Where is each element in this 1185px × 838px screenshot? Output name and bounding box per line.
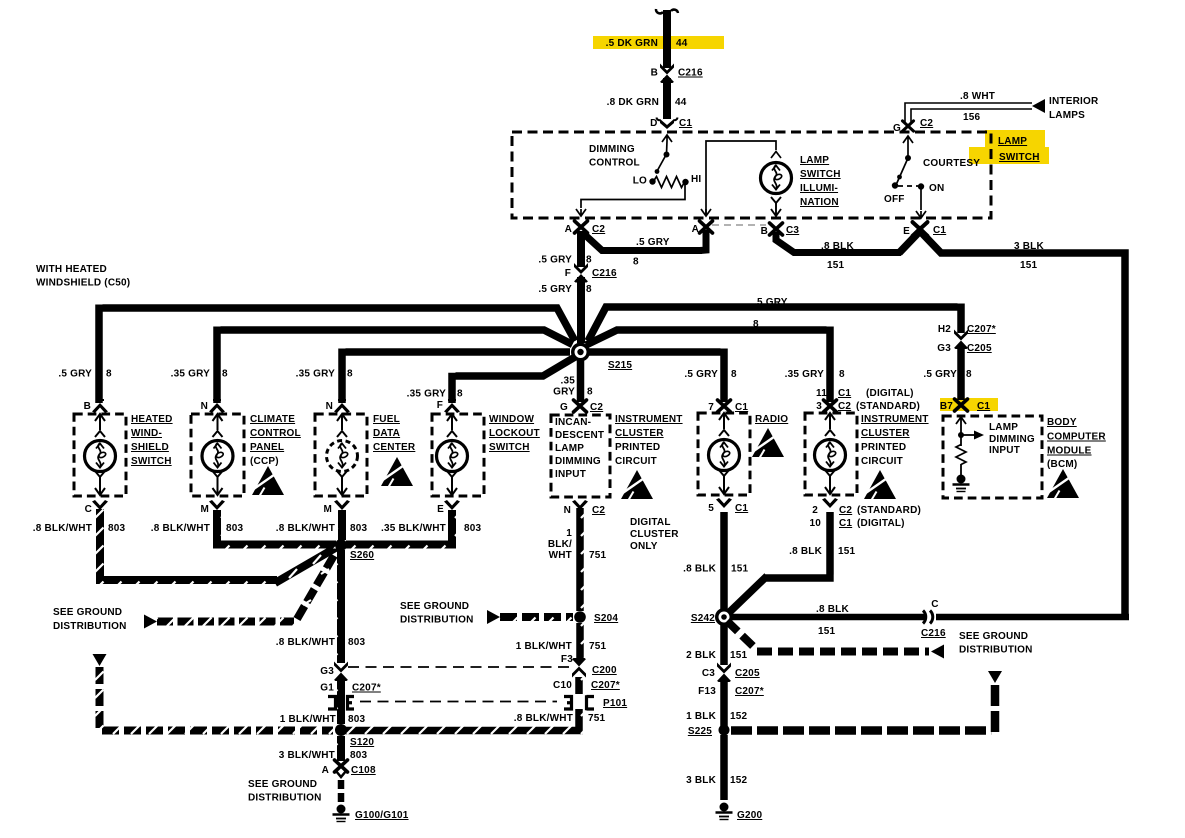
label S225 <box>688 726 712 737</box>
svg-text:C2: C2 <box>839 505 852 516</box>
svg-text:5: 5 <box>708 503 714 514</box>
heated windshield switch box <box>74 414 126 496</box>
svg-text:COMPUTER: COMPUTER <box>1047 432 1106 443</box>
instrument cluster box <box>805 413 857 495</box>
label .5 DK GRN 44 <box>606 38 688 49</box>
fuel pin M connector <box>323 500 350 515</box>
svg-text:G: G <box>560 402 568 413</box>
label SEE GROUND DISTRIBUTION bottom <box>248 779 322 804</box>
svg-text:803: 803 <box>350 523 368 534</box>
svg-text:751: 751 <box>589 550 607 561</box>
wire S215 to instrument cluster .35 GRY <box>586 327 830 403</box>
svg-text:C216: C216 <box>592 268 617 279</box>
svg-text:C2: C2 <box>838 401 851 412</box>
svg-text:152: 152 <box>730 711 748 722</box>
wire S215 to radio .5 GRY <box>589 349 724 403</box>
svg-text:LAMP: LAMP <box>800 155 829 166</box>
label 11 C1 (DIGITAL) <box>816 388 914 399</box>
svg-text:C207*: C207* <box>591 680 620 691</box>
BCM arrow contact dot <box>958 431 984 440</box>
label BODY COMPUTER MODULE (BCM) <box>1047 417 1106 470</box>
label HEATED WIND-SHIELD SWITCH <box>131 414 173 467</box>
svg-text:CLUSTER: CLUSTER <box>861 428 910 439</box>
splice S120 <box>335 724 347 736</box>
label LAMP SWITCH ILLUMI-NATION <box>800 155 841 208</box>
svg-text:ONLY: ONLY <box>630 541 658 552</box>
svg-text:C1: C1 <box>735 503 748 514</box>
svg-text:SHIELD: SHIELD <box>131 442 169 453</box>
svg-text:A: A <box>692 224 699 235</box>
label .8 BLK 151 cluster <box>789 546 855 557</box>
continuation triangle left ground wire <box>93 654 107 666</box>
svg-text:751: 751 <box>589 641 607 652</box>
connector C216 pin C <box>923 611 933 624</box>
wire incandescent N/C2 down to S204 hatched <box>576 508 584 611</box>
cluster pin 3 C2 connector <box>824 400 837 412</box>
wire left ground run to S120 hatched dashed <box>100 667 334 731</box>
svg-text:N: N <box>201 401 208 412</box>
label .35 BLK/WHT 803 window <box>381 523 482 534</box>
svg-text:C207*: C207* <box>967 324 996 335</box>
wire .8 DK GRN 44 <box>663 78 671 119</box>
label WITH HEATED WINDSHIELD (C50) <box>36 264 130 289</box>
fuel lamp dashed <box>327 414 358 495</box>
svg-text:LAMPS: LAMPS <box>1049 110 1085 121</box>
svg-text:(CCP): (CCP) <box>250 456 279 467</box>
BCM ESD symbol <box>1047 469 1079 499</box>
label 3 BLK/WHT 803 <box>279 750 368 761</box>
svg-text:.5 GRY: .5 GRY <box>923 369 957 380</box>
window pin E connector <box>437 500 460 515</box>
svg-text:3: 3 <box>816 401 822 412</box>
svg-text:F: F <box>437 400 443 411</box>
dashed connector line G1 to C10 <box>360 701 557 703</box>
svg-text:C: C <box>931 599 938 610</box>
svg-text:WIND-: WIND- <box>131 428 162 439</box>
svg-text:OFF: OFF <box>884 194 905 205</box>
svg-text:8: 8 <box>587 387 593 398</box>
svg-text:.8 BLK: .8 BLK <box>821 241 854 252</box>
svg-text:S242: S242 <box>691 613 715 624</box>
dimming control contact dots <box>649 152 688 186</box>
window lamp <box>437 414 468 495</box>
svg-text:.35: .35 <box>560 376 575 387</box>
svg-text:C200: C200 <box>592 665 617 676</box>
svg-text:ON: ON <box>929 183 944 194</box>
wire S215 down to incandescent lamp dimming input <box>577 360 585 402</box>
svg-text:C2: C2 <box>592 224 605 235</box>
svg-text:CONTROL: CONTROL <box>589 158 640 169</box>
splice S215 <box>571 343 590 362</box>
svg-text:44: 44 <box>676 38 688 49</box>
svg-text:B: B <box>651 68 658 79</box>
heated windshield pin B connector <box>84 399 108 413</box>
wire C205 down to BCM pin B7 <box>957 345 965 400</box>
svg-text:A: A <box>565 224 572 235</box>
svg-text:DIGITAL: DIGITAL <box>630 517 671 528</box>
label S260 <box>350 550 374 561</box>
svg-text:151: 151 <box>818 626 836 637</box>
svg-text:803: 803 <box>108 523 126 534</box>
svg-text:C1: C1 <box>679 118 692 129</box>
svg-text:C10: C10 <box>553 680 572 691</box>
svg-text:151: 151 <box>1020 260 1038 271</box>
connector pin A lamp feed <box>692 221 713 235</box>
svg-text:H2: H2 <box>938 324 951 335</box>
label .5 GRY 8 windshield column <box>58 369 112 380</box>
svg-text:.8 WHT: .8 WHT <box>960 91 995 102</box>
svg-text:E: E <box>437 504 444 515</box>
label .5 GRY wire to BCM <box>754 297 788 308</box>
svg-text:CONTROL: CONTROL <box>250 428 301 439</box>
svg-text:8: 8 <box>457 389 463 400</box>
label 1 BLK/WHT 803 <box>280 714 366 725</box>
heated windshield lamp <box>85 414 116 495</box>
svg-text:LAMP: LAMP <box>998 136 1027 147</box>
connector C216 pin F <box>565 263 617 283</box>
svg-text:2: 2 <box>812 505 818 516</box>
label SEE GROUND DISTRIBUTION left <box>53 607 127 632</box>
label G100/G101 <box>355 810 409 821</box>
label S215 <box>608 360 632 371</box>
radio pin 7 C1 connector <box>708 400 748 413</box>
svg-text:151: 151 <box>731 564 749 575</box>
svg-text:(DIGITAL): (DIGITAL) <box>866 388 914 399</box>
label .8 BLK/WHT 803 fuel <box>276 523 368 534</box>
wire S120 to C108 hatched <box>337 736 345 761</box>
svg-text:CLIMATE: CLIMATE <box>250 414 295 425</box>
label .5 GRY 8 BCM wire <box>923 369 972 380</box>
labels C C216 <box>921 599 946 639</box>
label 1 BLK/WHT 751 <box>516 641 607 652</box>
svg-text:C: C <box>85 504 92 515</box>
splice S204 <box>574 611 586 623</box>
svg-text:.8 BLK/WHT: .8 BLK/WHT <box>514 713 573 724</box>
svg-text:LAMP: LAMP <box>555 443 584 454</box>
interior lamps arrow <box>1032 99 1045 113</box>
svg-text:8: 8 <box>586 255 592 266</box>
svg-text:10: 10 <box>809 518 821 529</box>
label RADIO <box>755 414 788 425</box>
svg-text:B: B <box>84 401 91 412</box>
label .35 GRY 8 cluster column <box>785 369 845 380</box>
svg-text:LO: LO <box>633 176 647 187</box>
svg-text:.8 BLK: .8 BLK <box>816 604 849 615</box>
svg-text:.35 GRY: .35 GRY <box>407 389 447 400</box>
svg-text:LAMP: LAMP <box>989 422 1018 433</box>
labels .8 WHT 156 INTERIOR LAMPS <box>960 91 1099 123</box>
svg-text:751: 751 <box>588 713 606 724</box>
cluster lamp <box>815 413 846 494</box>
P101 bracket left pair <box>328 697 354 710</box>
svg-text:PRINTED: PRINTED <box>861 442 906 453</box>
connector C2 pin A <box>565 221 606 235</box>
connector C216 pin B <box>651 64 703 84</box>
BCM internal lamp dimming input circuit <box>956 417 974 475</box>
label CLIMATE CONTROL PANEL (CCP) <box>250 414 301 467</box>
wire G3 to S120 hatched <box>337 677 345 724</box>
radio lamp <box>709 413 740 494</box>
wire fuel data center to S260 hatched <box>338 510 346 540</box>
svg-text:INSTRUMENT: INSTRUMENT <box>861 414 929 425</box>
P101 bracket right pair <box>564 695 594 710</box>
label DIGITAL CLUSTER ONLY <box>630 517 679 552</box>
wire A/C2 down to F/C216 <box>577 231 585 267</box>
svg-text:C216: C216 <box>921 628 946 639</box>
arrow ground distribution left-point <box>931 645 944 659</box>
svg-text:SEE GROUND: SEE GROUND <box>959 631 1028 642</box>
svg-text:SWITCH: SWITCH <box>131 456 172 467</box>
svg-text:WINDOW: WINDOW <box>489 414 534 425</box>
climate pin N connector <box>201 399 225 413</box>
splice S242 <box>715 608 733 626</box>
lamp switch illumination bulb <box>761 163 792 194</box>
label P101 <box>603 698 627 709</box>
incandescent pin N C2 connector <box>564 500 606 516</box>
label .8 BLK 151 radio <box>683 564 748 575</box>
svg-text:C205: C205 <box>735 668 760 679</box>
svg-text:156: 156 <box>963 112 981 123</box>
svg-text:.5 GRY: .5 GRY <box>684 369 718 380</box>
see ground distribution arrow left <box>144 615 157 629</box>
svg-text:FUEL: FUEL <box>373 414 400 425</box>
label .8 BLK 151 <box>821 241 854 271</box>
wire S215 to fuel data center .35 GRY <box>342 349 570 404</box>
label .8 BLK/WHT 803 climate <box>151 523 244 534</box>
wire S204 down to F3 hatched <box>576 623 584 661</box>
svg-text:C207*: C207* <box>352 683 381 694</box>
svg-text:2 BLK: 2 BLK <box>686 650 716 661</box>
svg-text:(BCM): (BCM) <box>1047 459 1077 470</box>
highlight B7 C1 label <box>940 398 998 411</box>
svg-text:DATA: DATA <box>373 428 400 439</box>
svg-text:COURTESY: COURTESY <box>923 158 980 169</box>
svg-text:S204: S204 <box>594 613 618 624</box>
svg-text:N: N <box>564 505 571 516</box>
label .35 GRY 8 fuel column <box>296 369 353 380</box>
svg-text:.5 GRY: .5 GRY <box>538 284 572 295</box>
svg-text:S260: S260 <box>350 550 374 561</box>
svg-text:CLUSTER: CLUSTER <box>615 428 664 439</box>
svg-text:.8 DK GRN: .8 DK GRN <box>607 97 659 108</box>
svg-text:C2: C2 <box>592 505 605 516</box>
svg-text:8: 8 <box>966 369 972 380</box>
label .8 BLK/WHT 803 windshield <box>33 523 126 534</box>
wire S225 down to G200 <box>720 735 728 800</box>
svg-text:CIRCUIT: CIRCUIT <box>861 456 903 467</box>
radio ESD symbol <box>752 428 784 458</box>
wire S215 to climate control panel .35 GRY <box>217 327 573 404</box>
fuel pin N connector <box>326 399 350 413</box>
svg-text:C1: C1 <box>977 401 990 412</box>
label FUEL DATA CENTER <box>373 414 416 453</box>
svg-text:.8 BLK/WHT: .8 BLK/WHT <box>276 523 335 534</box>
svg-text:.35 BLK/WHT: .35 BLK/WHT <box>381 523 446 534</box>
connector C207*/C205 pins H2 G3 <box>937 324 996 354</box>
svg-text:3 BLK/WHT: 3 BLK/WHT <box>279 750 335 761</box>
svg-text:803: 803 <box>226 523 244 534</box>
svg-text:C1: C1 <box>838 388 851 399</box>
label S204 <box>594 613 618 624</box>
svg-text:8: 8 <box>222 369 228 380</box>
connector row dashed link A to B <box>712 224 766 226</box>
svg-text:PANEL: PANEL <box>250 442 284 453</box>
ground G200 <box>716 803 733 820</box>
svg-text:.5 GRY: .5 GRY <box>58 369 92 380</box>
ground G100/G101 <box>333 805 350 822</box>
svg-text:F13: F13 <box>698 686 716 697</box>
svg-text:(DIGITAL): (DIGITAL) <box>857 518 905 529</box>
interior lamps feed wires .8 WHT 156 <box>905 103 1032 122</box>
label LAMP DIMMING INPUT <box>989 422 1035 456</box>
wire see ground lead to S260 hatched dashed <box>157 618 294 626</box>
lamp bottom lead arrow <box>771 197 781 216</box>
label DIMMING CONTROL <box>589 144 640 169</box>
wire S242 right to C216 C <box>732 614 1129 621</box>
label INCAN-DESCENT LAMP DIMMING INPUT <box>555 417 604 480</box>
svg-text:G100/G101: G100/G101 <box>355 810 409 821</box>
wire S225 dashed lead right and up <box>731 684 995 732</box>
wire S242 down to C3 <box>720 625 728 665</box>
svg-text:C2: C2 <box>590 402 603 413</box>
svg-text:DISTRIBUTION: DISTRIBUTION <box>248 793 322 804</box>
label INSTRUMENT CLUSTER PRINTED CIRCUIT standard <box>861 414 929 467</box>
splice S225 <box>719 725 730 736</box>
svg-text:151: 151 <box>730 650 748 661</box>
climate ESD symbol <box>252 466 284 496</box>
svg-text:.8 BLK/WHT: .8 BLK/WHT <box>276 637 335 648</box>
svg-text:N: N <box>326 401 333 412</box>
svg-text:F3: F3 <box>561 654 573 665</box>
svg-text:SWITCH: SWITCH <box>800 169 841 180</box>
label .5 GRY 8 radio column <box>684 369 737 380</box>
svg-text:INSTRUMENT: INSTRUMENT <box>615 414 683 425</box>
label INSTRUMENT CLUSTER PRINTED CIRCUIT <box>615 414 683 467</box>
svg-text:(STANDARD): (STANDARD) <box>856 401 920 412</box>
svg-text:.5 GRY: .5 GRY <box>636 237 670 248</box>
courtesy switch OFF ON <box>896 136 926 218</box>
window lockout switch box <box>432 414 484 496</box>
labels LO HI <box>633 174 702 187</box>
svg-text:803: 803 <box>348 714 366 725</box>
svg-text:DIMMING: DIMMING <box>555 456 601 467</box>
svg-text:NATION: NATION <box>800 197 839 208</box>
incandescent ESD symbol <box>621 470 653 500</box>
svg-text:C3: C3 <box>702 668 715 679</box>
svg-text:.5 DK GRN: .5 DK GRN <box>606 38 658 49</box>
svg-text:DISTRIBUTION: DISTRIBUTION <box>959 645 1033 656</box>
label 3 BLK 152 <box>686 775 747 786</box>
svg-text:MODULE: MODULE <box>1047 446 1092 457</box>
svg-text:.5 GRY: .5 GRY <box>754 297 788 308</box>
svg-text:1 BLK/WHT: 1 BLK/WHT <box>516 641 572 652</box>
label G200 <box>737 810 763 821</box>
svg-text:.35 GRY: .35 GRY <box>785 369 825 380</box>
svg-text:G: G <box>893 123 901 134</box>
label .35 GRY 8 climate column <box>171 369 228 380</box>
label .8 BLK 151 right <box>816 604 849 637</box>
svg-text:1: 1 <box>566 528 572 539</box>
svg-text:.35 GRY: .35 GRY <box>171 369 211 380</box>
svg-text:1 BLK: 1 BLK <box>686 711 716 722</box>
label 3 BLK 151 <box>1014 241 1044 271</box>
svg-text:8: 8 <box>586 284 592 295</box>
incandescent lamp dimming input box <box>551 415 610 497</box>
svg-text:GRY: GRY <box>553 387 575 398</box>
wire climate panel to S260 hatched <box>217 510 336 545</box>
courtesy switch contact dots <box>892 155 924 190</box>
fuel ESD symbol <box>381 457 413 487</box>
svg-text:G3: G3 <box>937 343 951 354</box>
label WINDOW LOCKOUT SWITCH <box>489 414 540 453</box>
wire windshield switch ground path hatched <box>100 509 277 580</box>
wire see ground lead to S204 hatched dashed <box>500 613 573 621</box>
svg-text:.8 BLK: .8 BLK <box>683 564 716 575</box>
svg-text:(STANDARD): (STANDARD) <box>857 505 921 516</box>
svg-text:ILLUMI-: ILLUMI- <box>800 183 838 194</box>
svg-text:DESCENT: DESCENT <box>555 430 604 441</box>
wire C10 to P101 hatched <box>575 677 583 694</box>
label 3 C2 (STANDARD) <box>816 401 920 412</box>
wire feed .5 DK GRN 44 from top <box>656 9 678 68</box>
connector C1 pin E <box>903 222 946 237</box>
svg-text:HI: HI <box>691 174 701 185</box>
label S242 <box>691 613 715 624</box>
dashed connector line G3 to F3 <box>348 666 570 668</box>
svg-text:.8 BLK: .8 BLK <box>789 546 822 557</box>
svg-text:8: 8 <box>633 257 639 268</box>
svg-text:LOCKOUT: LOCKOUT <box>489 428 540 439</box>
svg-text:.35 GRY: .35 GRY <box>296 369 336 380</box>
label 1 BLK/WHT 751 stacked <box>548 528 607 561</box>
wire window lockout to S260 hatched <box>346 510 452 545</box>
label 2 BLK 151 <box>686 650 747 661</box>
svg-text:RADIO: RADIO <box>755 414 788 425</box>
svg-text:8: 8 <box>753 319 759 330</box>
radio pin 5 C1 connector <box>708 498 748 514</box>
svg-text:SWITCH: SWITCH <box>489 442 530 453</box>
svg-text:C205: C205 <box>967 343 992 354</box>
svg-text:S215: S215 <box>608 360 632 371</box>
window pin F connector <box>437 399 460 413</box>
svg-text:8: 8 <box>731 369 737 380</box>
svg-text:B: B <box>761 226 768 237</box>
svg-text:DISTRIBUTION: DISTRIBUTION <box>400 615 474 626</box>
svg-text:803: 803 <box>350 750 368 761</box>
svg-text:INPUT: INPUT <box>555 469 586 480</box>
svg-text:G1: G1 <box>320 683 334 694</box>
svg-text:WHT: WHT <box>549 550 572 561</box>
svg-text:CIRCUIT: CIRCUIT <box>615 456 657 467</box>
wire S260 down to G3 hatched <box>337 550 345 663</box>
wire C205 down to S225 <box>720 678 728 726</box>
svg-text:BODY: BODY <box>1047 417 1077 428</box>
svg-text:DISTRIBUTION: DISTRIBUTION <box>53 621 127 632</box>
wire cluster 2/C2 down to S242 <box>728 512 834 614</box>
label .5 GRY 8 below F <box>538 284 592 295</box>
lamp switch assembly dashed box <box>512 132 991 218</box>
labels COURTESY OFF ON <box>884 158 980 205</box>
wire C108 to ground dashed <box>338 780 345 802</box>
svg-text:C1: C1 <box>735 402 748 413</box>
svg-text:INTERIOR: INTERIOR <box>1049 96 1099 107</box>
wire S215 to heated windshield switch .5 GRY <box>99 305 575 404</box>
label .5 GRY 8 branch <box>633 237 670 268</box>
label .8 BLK/WHT 751 <box>514 713 606 724</box>
svg-text:.5 GRY: .5 GRY <box>538 255 572 266</box>
fuel data center box <box>315 414 367 496</box>
svg-text:SEE GROUND: SEE GROUND <box>53 607 122 618</box>
